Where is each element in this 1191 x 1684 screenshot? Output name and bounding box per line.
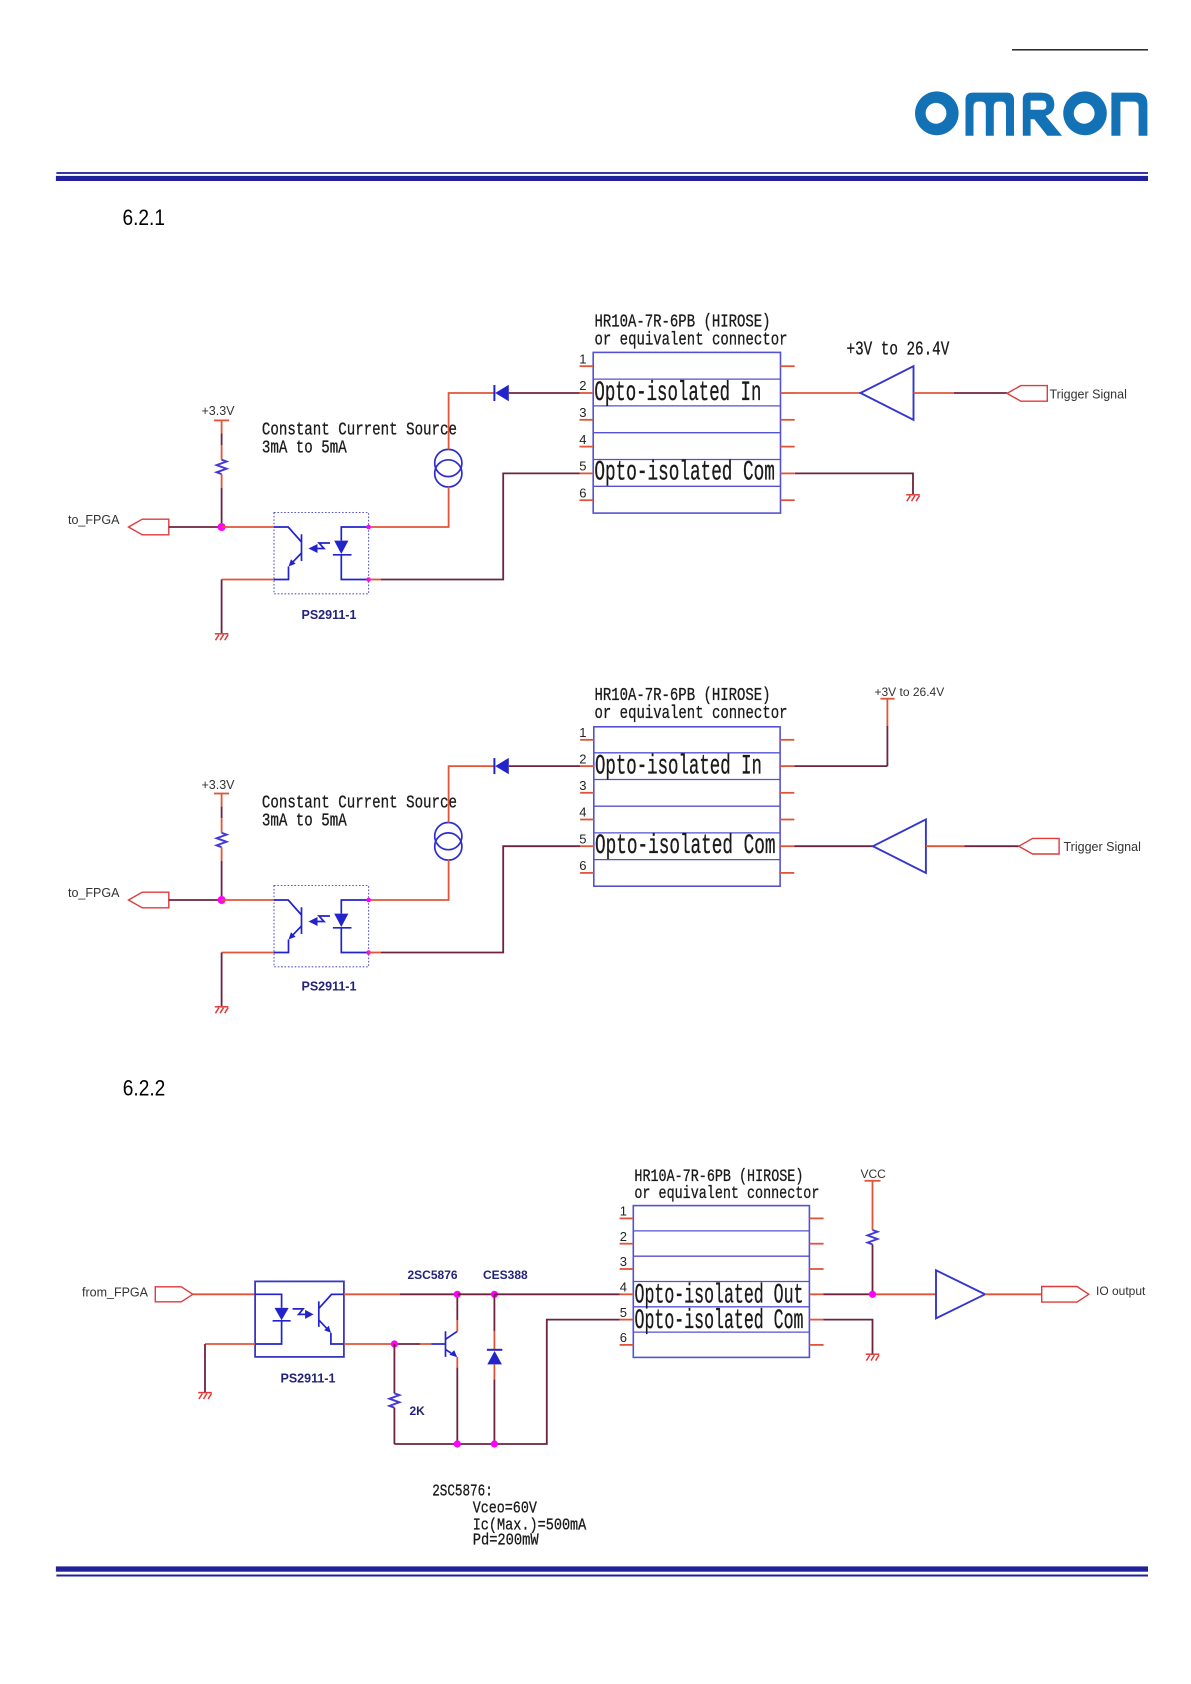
wire buffer to IO output port: [985, 1293, 1042, 1295]
node B junction dot (base/2K): [391, 1340, 398, 1347]
wire 2K to bottom rail: [393, 1408, 395, 1444]
svg-text:or equivalent connector: or equivalent connector: [595, 704, 788, 724]
pin 5 of connector 3 (number, left stub, right stub): [620, 1305, 824, 1320]
svg-text:or equivalent connector: or equivalent connector: [634, 1184, 819, 1204]
svg-text:+3V to 26.4V: +3V to 26.4V: [847, 339, 950, 361]
svg-text:6: 6: [579, 858, 586, 873]
wire optocoupler LED cathode to connector pin 5: [369, 579, 381, 581]
diode D2: [494, 758, 508, 774]
wire +3.3V rail down to to_FPGA node: [221, 420, 223, 433]
pin 5 of connector 2 (number, left stub, right stub): [579, 831, 794, 846]
pin 2 of connector 3 (number, left stub, right stub): [620, 1229, 824, 1244]
bottom rail wire to connector pin 5: [394, 1320, 619, 1444]
svg-text:6: 6: [579, 485, 586, 500]
svg-text:6.2.2: 6.2.2: [123, 1076, 166, 1101]
resistor R2 (pull-up): [868, 1230, 878, 1244]
wire diode D2 to connector pin 2 (circuit 2): [509, 765, 580, 767]
svg-text:Opto-isolated In: Opto-isolated In: [595, 752, 762, 783]
ground (circuit 3 left): [198, 1393, 212, 1399]
wire connector pin 5 to right ground (circuit 1): [795, 473, 913, 494]
pin 6 of connector 1 (number, left stub, right stub): [579, 485, 794, 500]
pin 6 of connector 2 (number, left stub, right stub): [579, 858, 794, 873]
svg-text:Trigger Signal: Trigger Signal: [1064, 840, 1141, 854]
wire VCC rail down to resistor: [872, 1181, 874, 1230]
port connector Trigger Signal (circuit 2): [1019, 838, 1059, 854]
svg-text:2: 2: [620, 1229, 627, 1244]
connector J-1 body HR10A-7R-6PB: [593, 352, 780, 513]
wire optocoupler emitter to 2SC5876 base: [344, 1343, 395, 1345]
wire connector pin 5 to right ground (circuit 3): [824, 1320, 873, 1354]
node A2 junction dot: [218, 896, 226, 904]
wire optocoupler emitter to ground (circuit 1): [222, 579, 274, 581]
resistor R1 2K: [393, 1344, 395, 1393]
connector J-3 body HR10A-7R-6PB: [633, 1206, 809, 1358]
diode D3 CES388: [493, 1294, 495, 1331]
svg-text:PS2911-1: PS2911-1: [302, 980, 357, 994]
node G junction dot (VCC pull-up/Out): [869, 1291, 876, 1298]
wire +3.3V rail down (circuit 2): [221, 794, 223, 807]
svg-text:Constant Current Source: Constant Current Source: [262, 421, 457, 441]
wire to_FPGA to node A1: [169, 526, 222, 528]
svg-text:Opto-isolated Com: Opto-isolated Com: [595, 831, 776, 862]
svg-text:Opto-isolated Com: Opto-isolated Com: [594, 458, 775, 489]
svg-text:to_FPGA: to_FPGA: [68, 886, 120, 900]
wire Q1 collector up to Out net: [456, 1294, 458, 1320]
receiver buffer U2 (triangle): [873, 819, 926, 873]
svg-text:6: 6: [620, 1330, 627, 1345]
wire node A2 to optocoupler collector (circuit 2): [222, 899, 274, 901]
svg-text:HR10A-7R-6PB (HIROSE): HR10A-7R-6PB (HIROSE): [595, 313, 771, 333]
ground (circuit 1 left): [215, 634, 229, 640]
svg-text:Opto-isolated In: Opto-isolated In: [594, 378, 761, 409]
pin 1 of connector 3 (number, left stub, right stub): [620, 1204, 824, 1219]
svg-text:5: 5: [579, 459, 586, 474]
svg-text:PS2911-1: PS2911-1: [281, 1371, 336, 1385]
ground (circuit 1 right): [906, 495, 920, 501]
port connector from_FPGA: [155, 1287, 193, 1302]
pin 2 of connector 2 (number, left stub, right stub): [579, 751, 794, 766]
output buffer U3 (triangle): [936, 1270, 985, 1318]
svg-text:2: 2: [579, 378, 586, 393]
svg-text:or equivalent connector: or equivalent connector: [595, 331, 788, 351]
current source I1: [435, 449, 462, 487]
svg-text:2: 2: [579, 751, 586, 766]
svg-text:5: 5: [620, 1305, 627, 1320]
bottom double rule: [56, 1566, 1148, 1571]
svg-text:HR10A-7R-6PB (HIROSE): HR10A-7R-6PB (HIROSE): [595, 686, 771, 706]
wire +3V rail down to connector pin 2 (circuit 2): [886, 699, 888, 726]
port connector IO output: [1042, 1287, 1089, 1303]
wire to_FPGA to node A2: [169, 899, 222, 901]
+3.3V power stub (circuit 2): [214, 793, 229, 795]
svg-text:2SC5876: 2SC5876: [408, 1268, 458, 1282]
svg-text:6.2.1: 6.2.1: [123, 205, 166, 230]
header rule (thin black line above logo): [1012, 49, 1148, 51]
svg-text:PS2911-1: PS2911-1: [302, 608, 357, 622]
svg-text:Pd=200mW: Pd=200mW: [473, 1532, 540, 1551]
wire Out net to CES388 cathode: [457, 1293, 494, 1295]
svg-text:1: 1: [620, 1204, 627, 1219]
svg-text:+3.3V: +3.3V: [202, 778, 236, 792]
top double rule: [56, 172, 1148, 174]
svg-text:2K: 2K: [410, 1404, 426, 1418]
wire Out net to connector pin 4: [494, 1293, 619, 1295]
node F junction dot (CES388/rail): [491, 1440, 498, 1447]
svg-text:3mA to 5mA: 3mA to 5mA: [262, 439, 347, 459]
wire optocoupler collector to Out net: [344, 1293, 400, 1295]
resistor on +3.3V rail (circuit 1): [217, 460, 227, 474]
svg-text:4: 4: [579, 805, 586, 820]
wire current source up to diode net (circuit 2): [449, 766, 494, 822]
receiver buffer U1 (triangle): [861, 366, 914, 420]
svg-text:4: 4: [579, 432, 586, 447]
pin 3 of connector 3 (number, left stub, right stub): [620, 1254, 824, 1269]
pin 6 of connector 3 (number, left stub, right stub): [620, 1330, 824, 1345]
port connector Trigger Signal (circuit 1): [1007, 386, 1047, 402]
wire optocoupler LED cathode to connector pin 5 (circuit 2): [369, 952, 381, 954]
pin 3 of connector 2 (number, left stub, right stub): [579, 778, 794, 793]
transistor Q1 2SC5876: [446, 1331, 458, 1357]
pin 3 of connector 1 (number, left stub, right stub): [579, 405, 794, 420]
wire connector pin 5 to receiver (circuit 2): [794, 845, 873, 847]
svg-text:4: 4: [620, 1280, 627, 1295]
wire connector pin 2 to receiver input: [795, 392, 861, 394]
OMRON logo: [915, 91, 1147, 135]
wire resistor to node A1: [221, 474, 223, 488]
ground (circuit 3 right): [866, 1354, 880, 1360]
wire receiver to Trigger Signal port (circuit 2): [926, 845, 965, 847]
wire diode D1 to connector pin 2: [509, 392, 580, 394]
pin 1 of connector 2 (number, left stub, right stub): [579, 725, 794, 740]
wire node A1 to optocoupler collector: [222, 526, 274, 528]
connector J-2 body HR10A-7R-6PB: [594, 727, 780, 886]
+3V power stub (circuit 2): [881, 698, 895, 700]
pin 2 of connector 1 (number, left stub, right stub): [579, 378, 794, 393]
svg-text:5: 5: [579, 831, 586, 846]
node C junction dot (collector/Out): [454, 1291, 461, 1298]
wire current source bottom to optocoupler LED anode: [369, 487, 449, 527]
+3.3V power stub: [214, 419, 229, 421]
svg-text:IO output: IO output: [1096, 1284, 1146, 1298]
wire optocoupler LED cathode to ground (circuit 3): [205, 1343, 255, 1345]
svg-text:+3.3V: +3.3V: [202, 404, 236, 418]
wire optocoupler emitter to ground (circuit 2): [222, 952, 274, 954]
wire current source bottom to optocoupler LED anode (circuit 2): [369, 860, 449, 900]
pin 4 of connector 3 (number, left stub, right stub): [620, 1280, 824, 1295]
svg-text:from_FPGA: from_FPGA: [82, 1285, 149, 1299]
ground (circuit 2 left): [215, 1007, 229, 1013]
svg-text:1: 1: [579, 725, 586, 740]
svg-text:3: 3: [579, 778, 586, 793]
current source I2: [435, 823, 462, 861]
wire resistor to node A2: [221, 847, 223, 861]
svg-text:3: 3: [579, 405, 586, 420]
svg-text:to_FPGA: to_FPGA: [68, 513, 120, 527]
svg-text:Trigger Signal: Trigger Signal: [1050, 387, 1127, 401]
diode D1: [494, 385, 508, 401]
node A1 junction dot: [218, 523, 226, 531]
optocoupler PS2911-1 (circuit 1): [274, 513, 369, 594]
svg-text:1: 1: [579, 351, 586, 366]
optocoupler PS2911-1 (circuit 3): [255, 1281, 344, 1357]
svg-text:3mA to 5mA: 3mA to 5mA: [262, 812, 347, 832]
wire connector pin 2 to +3V rail (circuit 2): [794, 765, 887, 767]
svg-text:Constant Current Source: Constant Current Source: [262, 794, 457, 814]
pin 4 of connector 1 (number, left stub, right stub): [579, 432, 794, 447]
svg-text:CES388: CES388: [483, 1268, 528, 1282]
pin 4 of connector 2 (number, left stub, right stub): [579, 805, 794, 820]
wire Q1 emitter down to bottom rail: [456, 1357, 458, 1368]
resistor on +3.3V rail (circuit 2): [217, 833, 227, 847]
node E junction dot (emitter/rail): [454, 1440, 461, 1447]
node D junction dot (CES388/Out): [491, 1291, 498, 1298]
wire from_FPGA to optocoupler LED anode: [193, 1293, 255, 1295]
pin 1 of connector 1 (number, left stub, right stub): [579, 351, 794, 366]
port connector to_FPGA (circuit 2): [129, 892, 169, 908]
wire connector pin 4 to output buffer: [824, 1293, 873, 1295]
svg-text:3: 3: [620, 1254, 627, 1269]
pin 5 of connector 1 (number, left stub, right stub): [579, 459, 794, 474]
port connector to_FPGA (circuit 1): [129, 519, 169, 535]
VCC power stub: [865, 1180, 881, 1182]
svg-text:Opto-isolated Com: Opto-isolated Com: [635, 1306, 804, 1337]
svg-text:+3V to 26.4V: +3V to 26.4V: [875, 685, 945, 699]
svg-text:VCC: VCC: [861, 1167, 887, 1181]
optocoupler PS2911-1 (circuit 2): [274, 886, 369, 967]
wire receiver to Trigger Signal port (circuit 1): [914, 392, 955, 394]
wire current source up to diode net: [449, 393, 494, 449]
wire resistor to Out node: [872, 1244, 874, 1294]
